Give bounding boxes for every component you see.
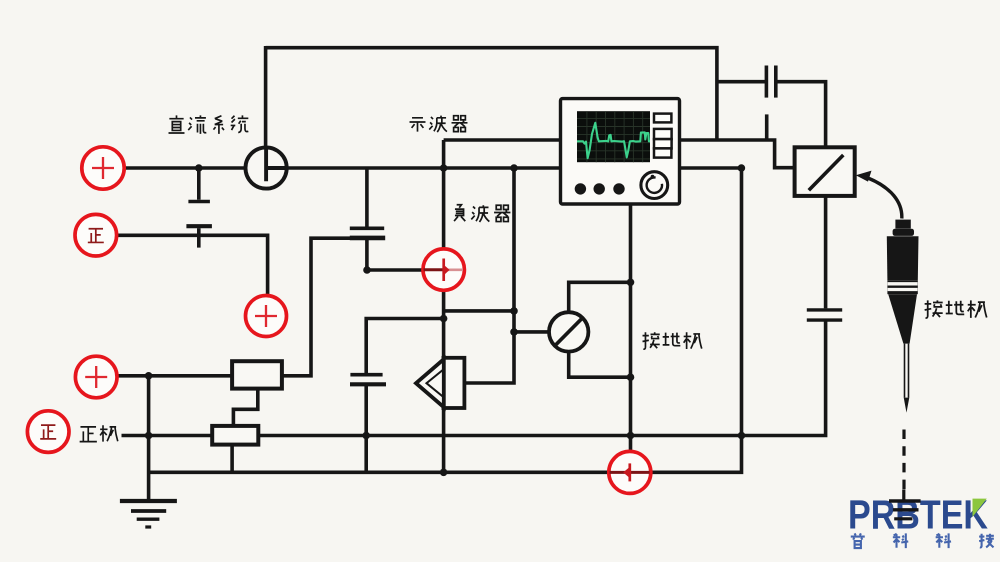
wire cap1 lower lead	[197, 228, 201, 247]
junction node (742,436)	[738, 432, 746, 440]
wire to breaker circle	[514, 330, 549, 334]
wire bus1 y=435.5 with corner up to cap4	[122, 322, 826, 436]
capacitor C3 plates	[350, 373, 382, 377]
wire bus2 y=472.3 with corner up	[149, 436, 742, 473]
junction node (444,318)	[440, 315, 448, 323]
breaker circle (switch with slash)	[549, 312, 588, 351]
resistor R2	[212, 426, 258, 445]
wire scope bottom vertical x=630.5	[629, 203, 633, 451]
junction node (149,376)	[145, 372, 153, 380]
source +V3	[246, 296, 287, 337]
wire cap4 upper lead	[824, 196, 828, 309]
probe stripes	[888, 284, 918, 290]
wire vertical x=443.5 lower	[442, 408, 446, 473]
wire R2 bottom lead	[230, 445, 234, 473]
label negative-wave device	[454, 205, 510, 222]
wire cap5 left lead	[717, 80, 765, 84]
wire cap2 upper lead	[365, 168, 369, 227]
ground symbol at probe	[889, 490, 921, 519]
wire cap3 lower lead	[364, 385, 368, 473]
wire vertical x=514 with branch to opamp	[464, 168, 514, 383]
oscilloscope buttons	[654, 114, 672, 158]
svg-text:PRBTEK: PRBTEK	[848, 492, 988, 538]
junction node (514,168)	[510, 164, 518, 172]
wire y=310.9	[444, 309, 514, 313]
wire top loop	[266, 48, 717, 140]
wire zheng source to source3	[118, 235, 268, 295]
current probe sensor A2	[609, 451, 651, 493]
label positive electrode	[80, 425, 118, 441]
wire vertical x=443.5 upper	[442, 140, 446, 248]
wire vertical x=148.6 to ground	[147, 376, 151, 501]
probe body	[887, 220, 919, 344]
oscilloscope screen	[577, 111, 650, 162]
wire R1 right loop up to cap2	[282, 238, 352, 376]
oscilloscope waveform	[577, 123, 650, 158]
wire DC circle top lead	[264, 46, 268, 148]
oscilloscope U1 body	[561, 99, 680, 204]
label grounding electrode right	[925, 300, 987, 318]
wire R1-R2 zigzag	[233, 389, 257, 426]
junction node (444,472)	[440, 469, 448, 477]
DC system transducer circle	[246, 147, 287, 188]
capacitor C5 plates	[765, 66, 769, 98]
junction node (630,436)	[627, 432, 635, 440]
junction node (367,270)	[363, 266, 371, 274]
junction node (741,168)	[738, 164, 746, 172]
wire source4 to R1	[118, 374, 233, 378]
resistor R1	[232, 361, 282, 388]
junction node (444,168)	[440, 164, 448, 172]
capacitor C4 plates	[807, 308, 842, 311]
wire main bus y=168	[125, 166, 742, 170]
wire breaker bottom loop	[569, 351, 631, 377]
label oscilloscope	[410, 116, 468, 132]
ground symbol main	[120, 501, 177, 527]
label grounding electrode left	[643, 332, 702, 349]
junction node (199,168)	[195, 164, 203, 172]
junction node (630,377)	[627, 373, 635, 381]
wire vertical x=741.5 from scope line	[740, 168, 744, 436]
label DC system	[169, 115, 249, 133]
wire scope upper line y=140 to attenuator box	[444, 140, 795, 168]
attenuator box (square with slash)	[795, 147, 855, 196]
oscilloscope dots	[575, 183, 625, 194]
wire cap1 upper lead	[197, 168, 201, 200]
junction node (149,436)	[145, 432, 153, 440]
op-amp / transducer U2	[416, 358, 464, 408]
capacitor C2 plates	[350, 227, 384, 231]
wire breaker top loop	[569, 282, 631, 312]
wire stub below cap5	[765, 114, 769, 140]
wire y=270 to sensor1	[367, 268, 422, 272]
wire cap5 right lead with corner down	[777, 82, 825, 148]
junction node (630,282)	[627, 279, 635, 287]
source +V4	[75, 356, 117, 398]
source +V1	[82, 147, 124, 189]
junction node (514,332)	[510, 328, 518, 336]
probe needle	[905, 344, 909, 398]
PRBTEK logo	[848, 492, 988, 538]
capacitor C1 plates	[188, 200, 210, 204]
wire cap2 lower lead	[365, 240, 369, 270]
wire vertical x=443.5 mid	[442, 291, 446, 359]
source zheng V2	[75, 214, 117, 256]
wire y=318.5 and cap3 upper lead	[366, 319, 443, 375]
junction node (366,436)	[362, 432, 370, 440]
junction node (514,311)	[510, 307, 518, 315]
logo chinese	[851, 533, 994, 548]
probe dashed lead	[902, 430, 905, 492]
oscilloscope knob	[641, 172, 668, 199]
probe arrow to attenuator	[856, 171, 902, 219]
source zheng V5	[27, 411, 69, 453]
current probe sensor A1	[423, 249, 464, 290]
